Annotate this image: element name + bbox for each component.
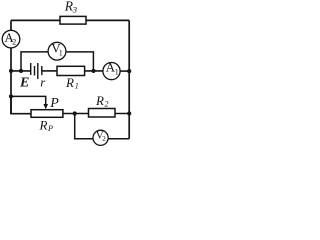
wire V2 branch: down then right [75,114,93,139]
svg-text:P: P [47,124,53,133]
wire V2 right to bottom-right corner [108,138,129,140]
svg-text:2: 2 [102,135,106,143]
wire V1 right: across and down to R1/A1 node [66,52,94,71]
wire slider feed: right then down [11,96,46,104]
voltmeter V1 [48,42,66,60]
battery plate short 1 [34,66,36,76]
rheostat RP [31,110,63,118]
node dot rheostat/R2/V2 [73,111,77,115]
svg-text:R: R [65,75,74,90]
svg-text:3: 3 [72,4,77,14]
battery plate short 2 [41,66,43,75]
resistor R1 [57,66,85,75]
node dot right border at A1 row [127,69,131,73]
slider arrow head P [43,104,48,109]
svg-text:1: 1 [59,49,63,58]
wire R2 right lead [115,113,129,115]
wire battery row [11,70,31,72]
resistor R2 [89,109,116,118]
wire left border bottom corner to rheostat [11,96,32,113]
wire rheostat right lead [63,113,89,115]
svg-text:P: P [49,96,59,111]
node dot junction R1/A1 [91,69,95,73]
wire V1 branch: up from dot, across to V1 [21,52,48,71]
wire left border vertical [10,20,12,114]
svg-text:1: 1 [75,82,79,91]
wire top: left corner to right corner [11,19,129,21]
svg-text:2: 2 [12,37,16,46]
ammeter A2 [2,30,20,48]
svg-text:2: 2 [105,99,109,108]
node dot slider feed on left border [9,94,13,98]
svg-text:R: R [39,118,48,133]
battery E r : plate long 1 [30,63,32,75]
svg-text:E: E [19,76,29,91]
svg-text:1: 1 [115,68,119,77]
svg-text:R: R [95,93,104,108]
ammeter A1 [103,63,120,80]
node dot junction battery left [9,69,13,73]
battery plate long 2 [37,63,39,79]
wire right border vertical [128,20,130,138]
node dot junction V1 branch [19,69,23,73]
node dot right border at R2 row [127,111,131,115]
voltmeter V2 [93,130,108,145]
resistor R3 [60,16,86,24]
